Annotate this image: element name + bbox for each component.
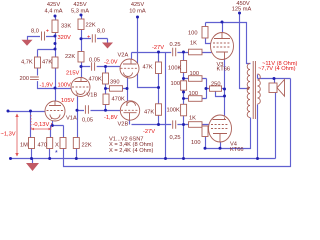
svg-text:-2.0V: -2.0V bbox=[104, 60, 118, 66]
ground bottom bbox=[26, 163, 39, 171]
wire V2B cathode and plate bbox=[128, 89, 130, 125]
resistor 100K B bbox=[181, 104, 187, 116]
wire coupling cap2 to V2B grid bbox=[78, 110, 121, 112]
resistor 22K supply2 bbox=[78, 19, 84, 30]
capacitor 8,0 #1 bbox=[31, 29, 50, 42]
svg-text:100K: 100K bbox=[167, 108, 180, 114]
svg-text:*: * bbox=[55, 150, 58, 157]
node supply1 bbox=[54, 15, 57, 18]
svg-text:V2A: V2A bbox=[118, 53, 129, 59]
svg-text:125 mA: 125 mA bbox=[232, 7, 252, 13]
wire 8uF cap to ground left bbox=[28, 37, 56, 41]
wire V4 plate to primary bottom bbox=[206, 118, 251, 149]
node supply4 bbox=[238, 12, 241, 15]
svg-text:~1,3V: ~1,3V bbox=[1, 132, 16, 138]
resistor 100 horizontal A bbox=[189, 76, 203, 82]
tube V3 KT66 bbox=[211, 33, 234, 73]
wire x=165.5 drop bbox=[165, 53, 167, 159]
svg-text:1K: 1K bbox=[189, 116, 196, 122]
svg-text:470K: 470K bbox=[112, 97, 125, 103]
wire V3 plate and screen bbox=[206, 23, 223, 44]
node V4 plate wire bbox=[219, 147, 222, 150]
capacitor 200 bbox=[20, 76, 40, 82]
capacitor 0.05 #1 bbox=[89, 58, 100, 71]
svg-text:X: X bbox=[55, 143, 59, 149]
node cathode line bbox=[104, 87, 107, 90]
wire V4 screen resistor leads bbox=[206, 127, 211, 149]
svg-text:1M: 1M bbox=[20, 143, 28, 149]
svg-text:100: 100 bbox=[189, 91, 199, 97]
svg-text:22K: 22K bbox=[65, 54, 75, 60]
svg-text:100K: 100K bbox=[168, 66, 181, 72]
svg-text:1K: 1K bbox=[190, 41, 197, 47]
svg-text:0,25: 0,25 bbox=[170, 135, 181, 141]
node supply2 bbox=[80, 14, 83, 17]
wire U to 4.7K top bbox=[38, 50, 56, 76]
speaker bbox=[269, 80, 285, 97]
transformer core bbox=[253, 61, 255, 119]
resistor 250 bbox=[210, 86, 222, 91]
wire 47K column bbox=[158, 53, 160, 125]
resistor 100 mid bbox=[181, 81, 187, 90]
wire secondary to speaker and feedback bbox=[258, 75, 291, 159]
svg-text:470K: 470K bbox=[89, 77, 102, 83]
wire V3 cathode bbox=[224, 60, 226, 90]
svg-text:X = 2,4K (4 Ohm): X = 2,4K (4 Ohm) bbox=[109, 148, 154, 154]
svg-text:100: 100 bbox=[190, 71, 200, 77]
svg-text:22K: 22K bbox=[82, 143, 92, 149]
ground middle bbox=[102, 43, 113, 49]
node 47K B bottom bbox=[157, 123, 160, 126]
node 47K A top bbox=[157, 51, 160, 54]
node input bbox=[7, 110, 10, 113]
wire resistor bottoms to rail bbox=[32, 149, 77, 159]
wire ground symbol stem bbox=[32, 159, 34, 164]
measure arrow -0,13V bbox=[31, 115, 52, 130]
wire input node bbox=[9, 111, 47, 113]
resistor 470K A bbox=[103, 73, 109, 84]
transformer primary bbox=[247, 64, 250, 118]
resistor 100 V4 screen bbox=[202, 126, 208, 137]
svg-text:390: 390 bbox=[110, 80, 120, 86]
capacitor 0.25 top bbox=[170, 42, 181, 57]
node right column bbox=[205, 87, 208, 90]
tube V1B bbox=[71, 78, 97, 99]
wire V2A cathode bbox=[127, 78, 129, 89]
wire cap1 to V2A grid bbox=[82, 66, 121, 68]
svg-text:V1A: V1A bbox=[66, 116, 77, 122]
wire supply1 column x=55 bbox=[55, 17, 57, 102]
capacitor 0,25 bottom bbox=[170, 120, 181, 141]
svg-text:215V: 215V bbox=[66, 71, 79, 77]
wire supply3 down and jog bbox=[138, 18, 159, 88]
resistor 22K V1B cathode bbox=[73, 138, 79, 149]
svg-text:0.05: 0.05 bbox=[89, 58, 100, 64]
svg-text:8,0: 8,0 bbox=[31, 29, 39, 35]
wire 470K-A column and 390 line bbox=[106, 67, 127, 89]
svg-text:KT66: KT66 bbox=[230, 147, 244, 153]
svg-text:200: 200 bbox=[20, 76, 30, 82]
svg-text:KT66: KT66 bbox=[217, 67, 231, 73]
node cathode junctions bbox=[223, 88, 226, 91]
svg-text:V1B: V1B bbox=[87, 93, 98, 99]
svg-text:-27V: -27V bbox=[152, 45, 164, 51]
svg-text:0,05: 0,05 bbox=[82, 117, 93, 123]
node V1B cathode bbox=[76, 109, 79, 112]
transformer center tap bbox=[247, 87, 250, 90]
resistor 470 bbox=[47, 138, 53, 149]
wire supply2 column bbox=[82, 39, 108, 43]
wire ground rail bbox=[10, 93, 276, 159]
transformer secondary bbox=[258, 74, 261, 104]
ground top-left bbox=[22, 40, 33, 46]
svg-text:47K: 47K bbox=[42, 60, 52, 66]
node supply jog bbox=[157, 86, 160, 89]
tube V2A bbox=[118, 53, 140, 79]
resistor R 33K bbox=[52, 20, 58, 33]
svg-text:5,3 mA: 5,3 mA bbox=[71, 9, 89, 15]
node V1A cathode junction bbox=[51, 124, 54, 127]
node coupling top bbox=[182, 51, 185, 54]
resistor 47K V1A plate bbox=[52, 57, 58, 68]
resistor 22K V1B plate bbox=[78, 52, 84, 63]
node V2A grid bbox=[104, 65, 107, 68]
resistor X feedback bbox=[60, 138, 66, 149]
svg-text:105V: 105V bbox=[61, 98, 74, 104]
svg-text:425V: 425V bbox=[47, 2, 60, 8]
wire V1B grid bbox=[56, 88, 73, 90]
svg-text:33K: 33K bbox=[61, 24, 71, 30]
measure arrow 1,3V bbox=[15, 114, 18, 157]
resistor 100 horizontal B bbox=[189, 96, 203, 102]
node rail 1M bbox=[30, 157, 33, 160]
svg-text:250: 250 bbox=[211, 82, 221, 88]
wire V2A plate outside bbox=[131, 53, 133, 60]
tube V2B bbox=[118, 101, 140, 128]
resistor 470K B bbox=[103, 94, 109, 105]
wire cluster column x=183.5 bbox=[184, 53, 225, 125]
svg-text:4,4 mA: 4,4 mA bbox=[44, 9, 62, 15]
node V2B grid bbox=[104, 109, 107, 112]
node supply3 bbox=[136, 16, 139, 19]
wire 450V center tap bbox=[240, 14, 248, 89]
wire 1M grid leak drop bbox=[31, 112, 32, 149]
node coupling bottom bbox=[182, 123, 185, 126]
svg-text:-0,13V: -0,13V bbox=[33, 122, 50, 128]
svg-text:-1,9V: -1,9V bbox=[40, 82, 54, 88]
svg-text:8,0: 8,0 bbox=[97, 29, 105, 35]
svg-text:425V: 425V bbox=[73, 2, 86, 8]
resistor 47K B driver plate bbox=[156, 104, 162, 116]
node mid upper bbox=[182, 91, 185, 94]
wire 470K-B bbox=[105, 89, 107, 111]
node 320V bbox=[54, 35, 57, 38]
resistor 100 V3 screen bbox=[202, 27, 208, 39]
resistor 4,7K bbox=[35, 57, 41, 68]
svg-text:4,7K: 4,7K bbox=[21, 60, 33, 66]
svg-text:425V: 425V bbox=[131, 2, 144, 8]
svg-text:0.25: 0.25 bbox=[170, 42, 181, 48]
svg-text:V2B: V2B bbox=[118, 122, 129, 128]
svg-text:100V: 100V bbox=[58, 82, 71, 88]
tube V4 KT66 bbox=[209, 115, 244, 153]
rail dots bbox=[9, 157, 12, 160]
resistor 100K A bbox=[181, 61, 187, 73]
resistor 1M bbox=[29, 138, 35, 149]
wire V1B cathode column bbox=[77, 97, 78, 149]
resistor 390 bbox=[110, 86, 123, 92]
wire driver top plate line bbox=[132, 52, 212, 54]
svg-text:100: 100 bbox=[191, 140, 201, 146]
resistor 47K A driver plate bbox=[156, 62, 162, 74]
svg-text:~7,7V (4 Ohm): ~7,7V (4 Ohm) bbox=[258, 66, 296, 72]
svg-text:320V: 320V bbox=[58, 35, 71, 41]
svg-text:-27V: -27V bbox=[143, 129, 155, 135]
resistor 1K top bbox=[189, 49, 203, 55]
svg-text:47K: 47K bbox=[143, 65, 153, 71]
node 22K bottom bbox=[80, 37, 83, 40]
node speaker top bbox=[273, 77, 276, 80]
node V3 plate bbox=[221, 21, 224, 24]
wire 200 cap bottom to plate node bbox=[38, 79, 56, 89]
svg-text:10 mA: 10 mA bbox=[129, 9, 146, 15]
tube V1A bbox=[45, 101, 77, 122]
wire x=183.5 to rail bbox=[183, 125, 185, 159]
node V1A plate bbox=[54, 87, 57, 90]
node mid bbox=[182, 97, 185, 100]
wire V1B plate branch bbox=[81, 16, 83, 78]
wire X feedback to speaker loop bbox=[64, 79, 291, 167]
svg-text:-1,8V: -1,8V bbox=[104, 115, 118, 121]
svg-text:22K: 22K bbox=[86, 23, 96, 29]
svg-text:100: 100 bbox=[171, 81, 181, 87]
node 100K A bottom bbox=[182, 77, 185, 80]
wire driver bottom plate line bbox=[132, 124, 211, 126]
resistor 1K bottom bbox=[189, 122, 203, 128]
svg-text:47K: 47K bbox=[144, 110, 154, 116]
capacitor 0,05 #2 bbox=[82, 105, 93, 124]
capacitor 8,0 #2 bbox=[87, 29, 105, 44]
node V1B plate bbox=[80, 65, 83, 68]
svg-text:100: 100 bbox=[188, 31, 198, 37]
node U junction bbox=[54, 42, 57, 45]
wire plate line to primary top bbox=[206, 23, 251, 64]
svg-text:470: 470 bbox=[38, 143, 48, 149]
wire V1A cathode bbox=[51, 119, 64, 138]
